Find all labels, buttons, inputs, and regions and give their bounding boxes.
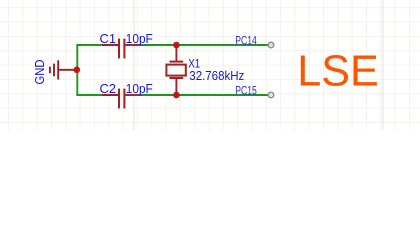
- grid major lines: [134, 0, 383, 130]
- svg-text:32.768kHz: 32.768kHz: [189, 68, 244, 83]
- grid minor lines: [0, 0, 420, 130]
- capacitor C2: [102, 89, 141, 109]
- junction bottom: [173, 92, 180, 99]
- open pin circle bottom (PC15): [268, 92, 274, 98]
- svg-text:10pF: 10pF: [126, 81, 153, 96]
- svg-text:C1: C1: [100, 31, 117, 46]
- wire top left segment: [76, 44, 101, 46]
- open pin circle top (PC14): [268, 42, 274, 48]
- wire bottom left segment: [76, 94, 101, 96]
- svg-text:LSE: LSE: [297, 48, 379, 96]
- wire left vertical: [76, 44, 78, 96]
- svg-text:GND: GND: [32, 59, 47, 84]
- svg-text:PC15: PC15: [235, 86, 256, 98]
- junction top: [173, 42, 180, 49]
- crystal X1: [166, 45, 185, 95]
- wire bottom right segment: [141, 94, 270, 96]
- svg-text:PC14: PC14: [235, 36, 257, 48]
- svg-text:10pF: 10pF: [126, 31, 153, 46]
- wire top right segment: [141, 44, 270, 46]
- ground: [50, 60, 77, 79]
- junction left: [74, 67, 81, 74]
- capacitor C1: [102, 39, 141, 59]
- svg-text:C2: C2: [100, 81, 117, 96]
